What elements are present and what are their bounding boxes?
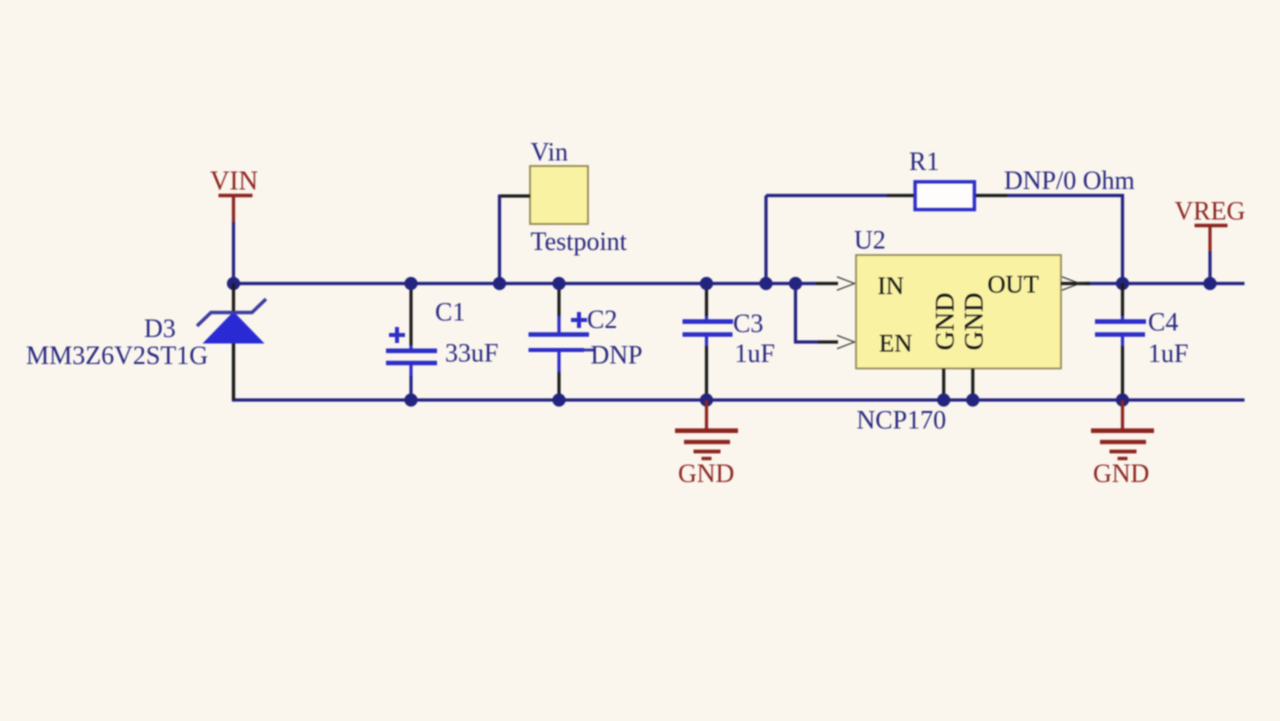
- svg-text:C3: C3: [733, 309, 763, 338]
- wire top rail: [234, 282, 817, 285]
- node C3 top: [700, 277, 713, 290]
- wire VREG stem: [1208, 252, 1211, 284]
- node VREG: [1203, 277, 1216, 290]
- pin EN: [818, 340, 838, 343]
- node VIN/top rail: [227, 277, 240, 290]
- capacitor C1 33uF: [386, 284, 498, 377]
- ground GND right: [1091, 400, 1154, 488]
- pin R1 right: [976, 194, 1007, 197]
- svg-text:C4: C4: [1148, 308, 1178, 337]
- svg-text:IN: IN: [878, 273, 904, 300]
- svg-text:U2: U2: [854, 226, 886, 255]
- pin IN: [816, 282, 838, 285]
- wire VIN stem: [232, 222, 235, 284]
- node GND pin 1: [937, 393, 950, 406]
- svg-text:GND: GND: [930, 293, 960, 350]
- node GND pin 2: [966, 393, 979, 406]
- capacitor C3 1uF: [683, 284, 775, 401]
- pin GND 2: [971, 369, 974, 400]
- capacitor C2 DNP: [529, 284, 643, 401]
- svg-text:C1: C1: [435, 298, 465, 327]
- power symbol VREG: [1175, 197, 1246, 253]
- wire EN branch: [796, 284, 819, 343]
- svg-text:R1: R1: [909, 147, 939, 176]
- svg-text:OUT: OUT: [988, 272, 1039, 299]
- svg-text:Testpoint: Testpoint: [531, 227, 628, 256]
- pin OUT wire: [1061, 282, 1090, 285]
- wire C1 bottom: [409, 376, 412, 400]
- ground GND left: [675, 400, 738, 488]
- svg-text:1uF: 1uF: [735, 339, 775, 368]
- testpoint Vin: [500, 138, 628, 257]
- node testpoint: [493, 277, 506, 290]
- node C4/R1 top: [1116, 277, 1129, 290]
- pin arrow IN: [837, 277, 855, 290]
- wire bottom rail: [234, 343, 1245, 400]
- node EN branch: [789, 277, 802, 290]
- node C3 bottom: [700, 393, 713, 406]
- svg-text:C2: C2: [587, 305, 617, 334]
- svg-text:VIN: VIN: [210, 166, 258, 196]
- diode D3 zener MM3Z6V2ST1G: [26, 284, 266, 401]
- svg-text:VREG: VREG: [1175, 197, 1246, 226]
- pin GND 1: [942, 369, 945, 400]
- pin arrow OUT: [1062, 277, 1080, 290]
- svg-text:EN: EN: [879, 331, 912, 358]
- node C1 top: [404, 277, 417, 290]
- svg-text:1uF: 1uF: [1148, 339, 1188, 368]
- svg-text:MM3Z6V2ST1G: MM3Z6V2ST1G: [26, 341, 208, 370]
- node C4 bottom: [1116, 393, 1129, 406]
- wire testpoint stem: [498, 195, 501, 284]
- node R1 branch: [759, 277, 772, 290]
- capacitor C4 1uF: [1095, 284, 1188, 401]
- node C1 bottom: [404, 393, 417, 406]
- svg-text:D3: D3: [144, 314, 176, 343]
- svg-text:33uF: 33uF: [445, 339, 498, 368]
- IC U2 NCP170 regulator body: [854, 226, 1061, 435]
- node C2 bottom: [552, 393, 565, 406]
- svg-text:NCP170: NCP170: [857, 406, 947, 435]
- pin arrow EN: [837, 335, 855, 348]
- svg-text:DNP: DNP: [591, 341, 643, 370]
- wire R1 right to corner: [1007, 196, 1123, 284]
- resistor R1: [909, 147, 974, 210]
- power symbol VIN: [210, 166, 258, 224]
- svg-text:GND: GND: [678, 459, 734, 488]
- svg-text:DNP/0 Ohm: DNP/0 Ohm: [1004, 166, 1135, 195]
- svg-text:GND: GND: [1093, 459, 1149, 488]
- wire R1 branch vertical left: [764, 196, 767, 284]
- svg-text:GND: GND: [959, 293, 989, 350]
- svg-text:Vin: Vin: [531, 138, 568, 167]
- pin R1 left: [887, 194, 914, 197]
- wire top-right rail: [1085, 282, 1245, 285]
- wire R1 left horizontal: [766, 194, 887, 197]
- node C2 top: [552, 277, 565, 290]
